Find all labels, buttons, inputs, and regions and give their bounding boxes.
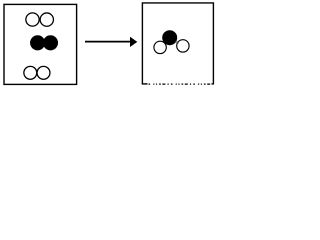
- atom: white circle product lower-right: [177, 40, 189, 52]
- left box (reactants container): [4, 4, 77, 84]
- atom: black circle row2 right: [43, 35, 58, 50]
- atom: white circle row1 left: [26, 13, 39, 26]
- atom: black circle row2 left: [30, 35, 45, 50]
- atom: white circle row1 right: [40, 13, 53, 26]
- right box bottom-left corner stub: [142, 83, 148, 85]
- right box bottom border (dash-dot appearance): [149, 83, 212, 85]
- reaction arrow head: [130, 37, 137, 47]
- atom: black circle product top-center: [162, 30, 177, 45]
- right box (product container): left, top, right sides solid: [142, 3, 213, 84]
- right box bottom-right corner stub: [212, 83, 215, 85]
- blur bridge ball to right white: [175, 40, 180, 44]
- atom: white circle row3 left: [24, 66, 37, 79]
- reaction arrow shaft: [85, 41, 131, 43]
- atom: white circle product lower-left: [154, 41, 166, 53]
- atom: white circle row3 right: [37, 66, 50, 79]
